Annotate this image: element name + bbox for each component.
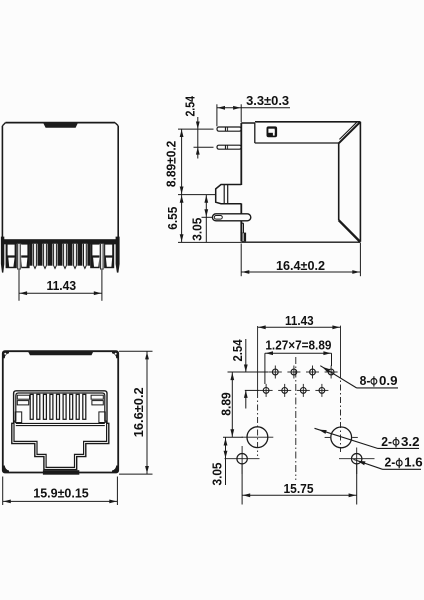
view3 left shield finger: [17, 395, 29, 405]
view2 inner face vertical edge: [338, 143, 340, 220]
view1 right mounting flange: [116, 237, 120, 273]
view2 snap latch bulge: [216, 185, 242, 204]
view4 right small hole phi1.6: [339, 448, 375, 475]
view2 bottom-right chamfer (thick): [339, 220, 361, 242]
svg-text:11.43: 11.43: [285, 313, 314, 328]
view1 comb teeth and contact pins: [30, 244, 91, 270]
view2 pin1 extension line: [178, 128, 214, 130]
svg-text:3.2: 3.2: [401, 434, 420, 449]
view2 solder tab (dark): [240, 233, 246, 242]
view1 pin 8 slot: [100, 244, 104, 270]
view3 right shield finger: [91, 395, 103, 405]
view2 latch extension line: [178, 194, 216, 196]
view3 right post: [99, 412, 105, 423]
svg-text:2.54: 2.54: [183, 96, 198, 117]
view4 dimension 3.05: [210, 437, 228, 485]
view2 solder peg (pill): [212, 214, 250, 221]
svg-text:11.43: 11.43: [47, 278, 77, 293]
view2 dimension 2.54: [183, 96, 200, 159]
view1 top latch tab (dark): [43, 122, 79, 128]
view4 label 2-φ1.6: [354, 455, 423, 470]
view2 pin 1 (upper): [217, 127, 241, 131]
view1 dimension 11.43: [19, 269, 102, 301]
view3 top shield bar (dark): [28, 351, 94, 355]
view4 contact holes 8x phi0.9: [260, 366, 338, 397]
view1 left mounting peg block: [6, 244, 30, 268]
view2 lower-left step: [241, 221, 243, 233]
svg-text:1.27×7=8.89: 1.27×7=8.89: [265, 338, 331, 353]
svg-text:8.89: 8.89: [219, 392, 234, 416]
view3 corner notches: [3, 351, 118, 472]
view3 dimension 16.6±0.2: [119, 351, 153, 474]
view2 dimension 3.3±0.3: [217, 93, 290, 126]
view3 left post: [15, 412, 21, 423]
view4 dimension 15.75: [242, 465, 357, 505]
view3 bottom latch bar (dark): [43, 470, 79, 475]
view2 side-view body outline: [241, 122, 360, 242]
view2 pin 2 (lower): [217, 145, 241, 149]
svg-text:3.05: 3.05: [190, 218, 205, 241]
view2 shield step box: [255, 123, 339, 143]
view1 left mounting flange: [1, 237, 4, 273]
svg-text:1.6: 1.6: [404, 455, 423, 470]
view2 top-right corner chamfer: [339, 122, 361, 144]
view4 left small hole phi1.6: [225, 446, 260, 474]
view4 dimension 1.27×7=8.89: [265, 338, 332, 384]
view2 dimension 16.4±0.2: [241, 243, 360, 276]
view4 dimension 2.54: [230, 339, 248, 409]
view2 dimension 8.89±0.2: [164, 129, 184, 195]
view3 socket opening inner profile: [14, 393, 107, 467]
view1 right mounting peg block: [90, 244, 114, 268]
svg-text:3.3±0.3: 3.3±0.3: [246, 93, 289, 108]
view4 left hole centerline: [257, 326, 259, 456]
view4 right hole centerline: [340, 326, 342, 452]
view4 dimension 11.43: [258, 313, 341, 329]
view4 vertical centerline: [295, 357, 297, 480]
svg-text:3.05: 3.05: [210, 463, 225, 486]
view3 cavity floor lines: [16, 423, 105, 425]
view2 dimension 3.05: [190, 195, 209, 243]
view3 contact springs: [30, 394, 86, 419]
svg-text:16.6±0.2: 16.6±0.2: [131, 387, 146, 437]
view4 bottom row extension line: [245, 389, 260, 391]
view4 left big hole phi3.2: [242, 427, 274, 448]
view3 front-view body outline: [3, 351, 118, 472]
view2 shield hole detail: [267, 126, 278, 137]
view2 bottom extension line: [178, 241, 241, 243]
view2 pin2 extension line: [194, 146, 214, 148]
view1 comb base bar: [2, 239, 119, 244]
view3 dimension 15.9±0.15: [3, 477, 118, 506]
svg-text:15.75: 15.75: [284, 481, 314, 496]
view2 dimension 6.55: [165, 195, 184, 243]
svg-text:0.9: 0.9: [379, 373, 398, 388]
svg-text:8.89±0.2: 8.89±0.2: [164, 141, 179, 188]
svg-text:8-: 8-: [360, 373, 371, 388]
svg-text:15.9±0.15: 15.9±0.15: [33, 485, 89, 500]
svg-text:6.55: 6.55: [165, 207, 180, 230]
svg-text:2-: 2-: [385, 455, 396, 470]
view4 dimension 8.89: [219, 372, 235, 437]
view4 right big hole phi3.2: [325, 427, 358, 448]
view4 label 8-φ0.9: [320, 366, 398, 388]
svg-text:2.54: 2.54: [230, 339, 245, 362]
svg-text:16.4±0.2: 16.4±0.2: [276, 258, 325, 273]
view1 connector top-view body outline: [2, 123, 118, 240]
svg-text:2-: 2-: [381, 434, 392, 449]
view3 socket opening outer profile: [12, 391, 109, 470]
view2 peg extension line: [202, 216, 213, 218]
view4 big hole extension line: [223, 436, 243, 438]
view4 top row extension line: [228, 371, 269, 373]
view4 label 2-φ3.2: [315, 428, 420, 449]
view1 pin 1 slot: [17, 244, 21, 270]
